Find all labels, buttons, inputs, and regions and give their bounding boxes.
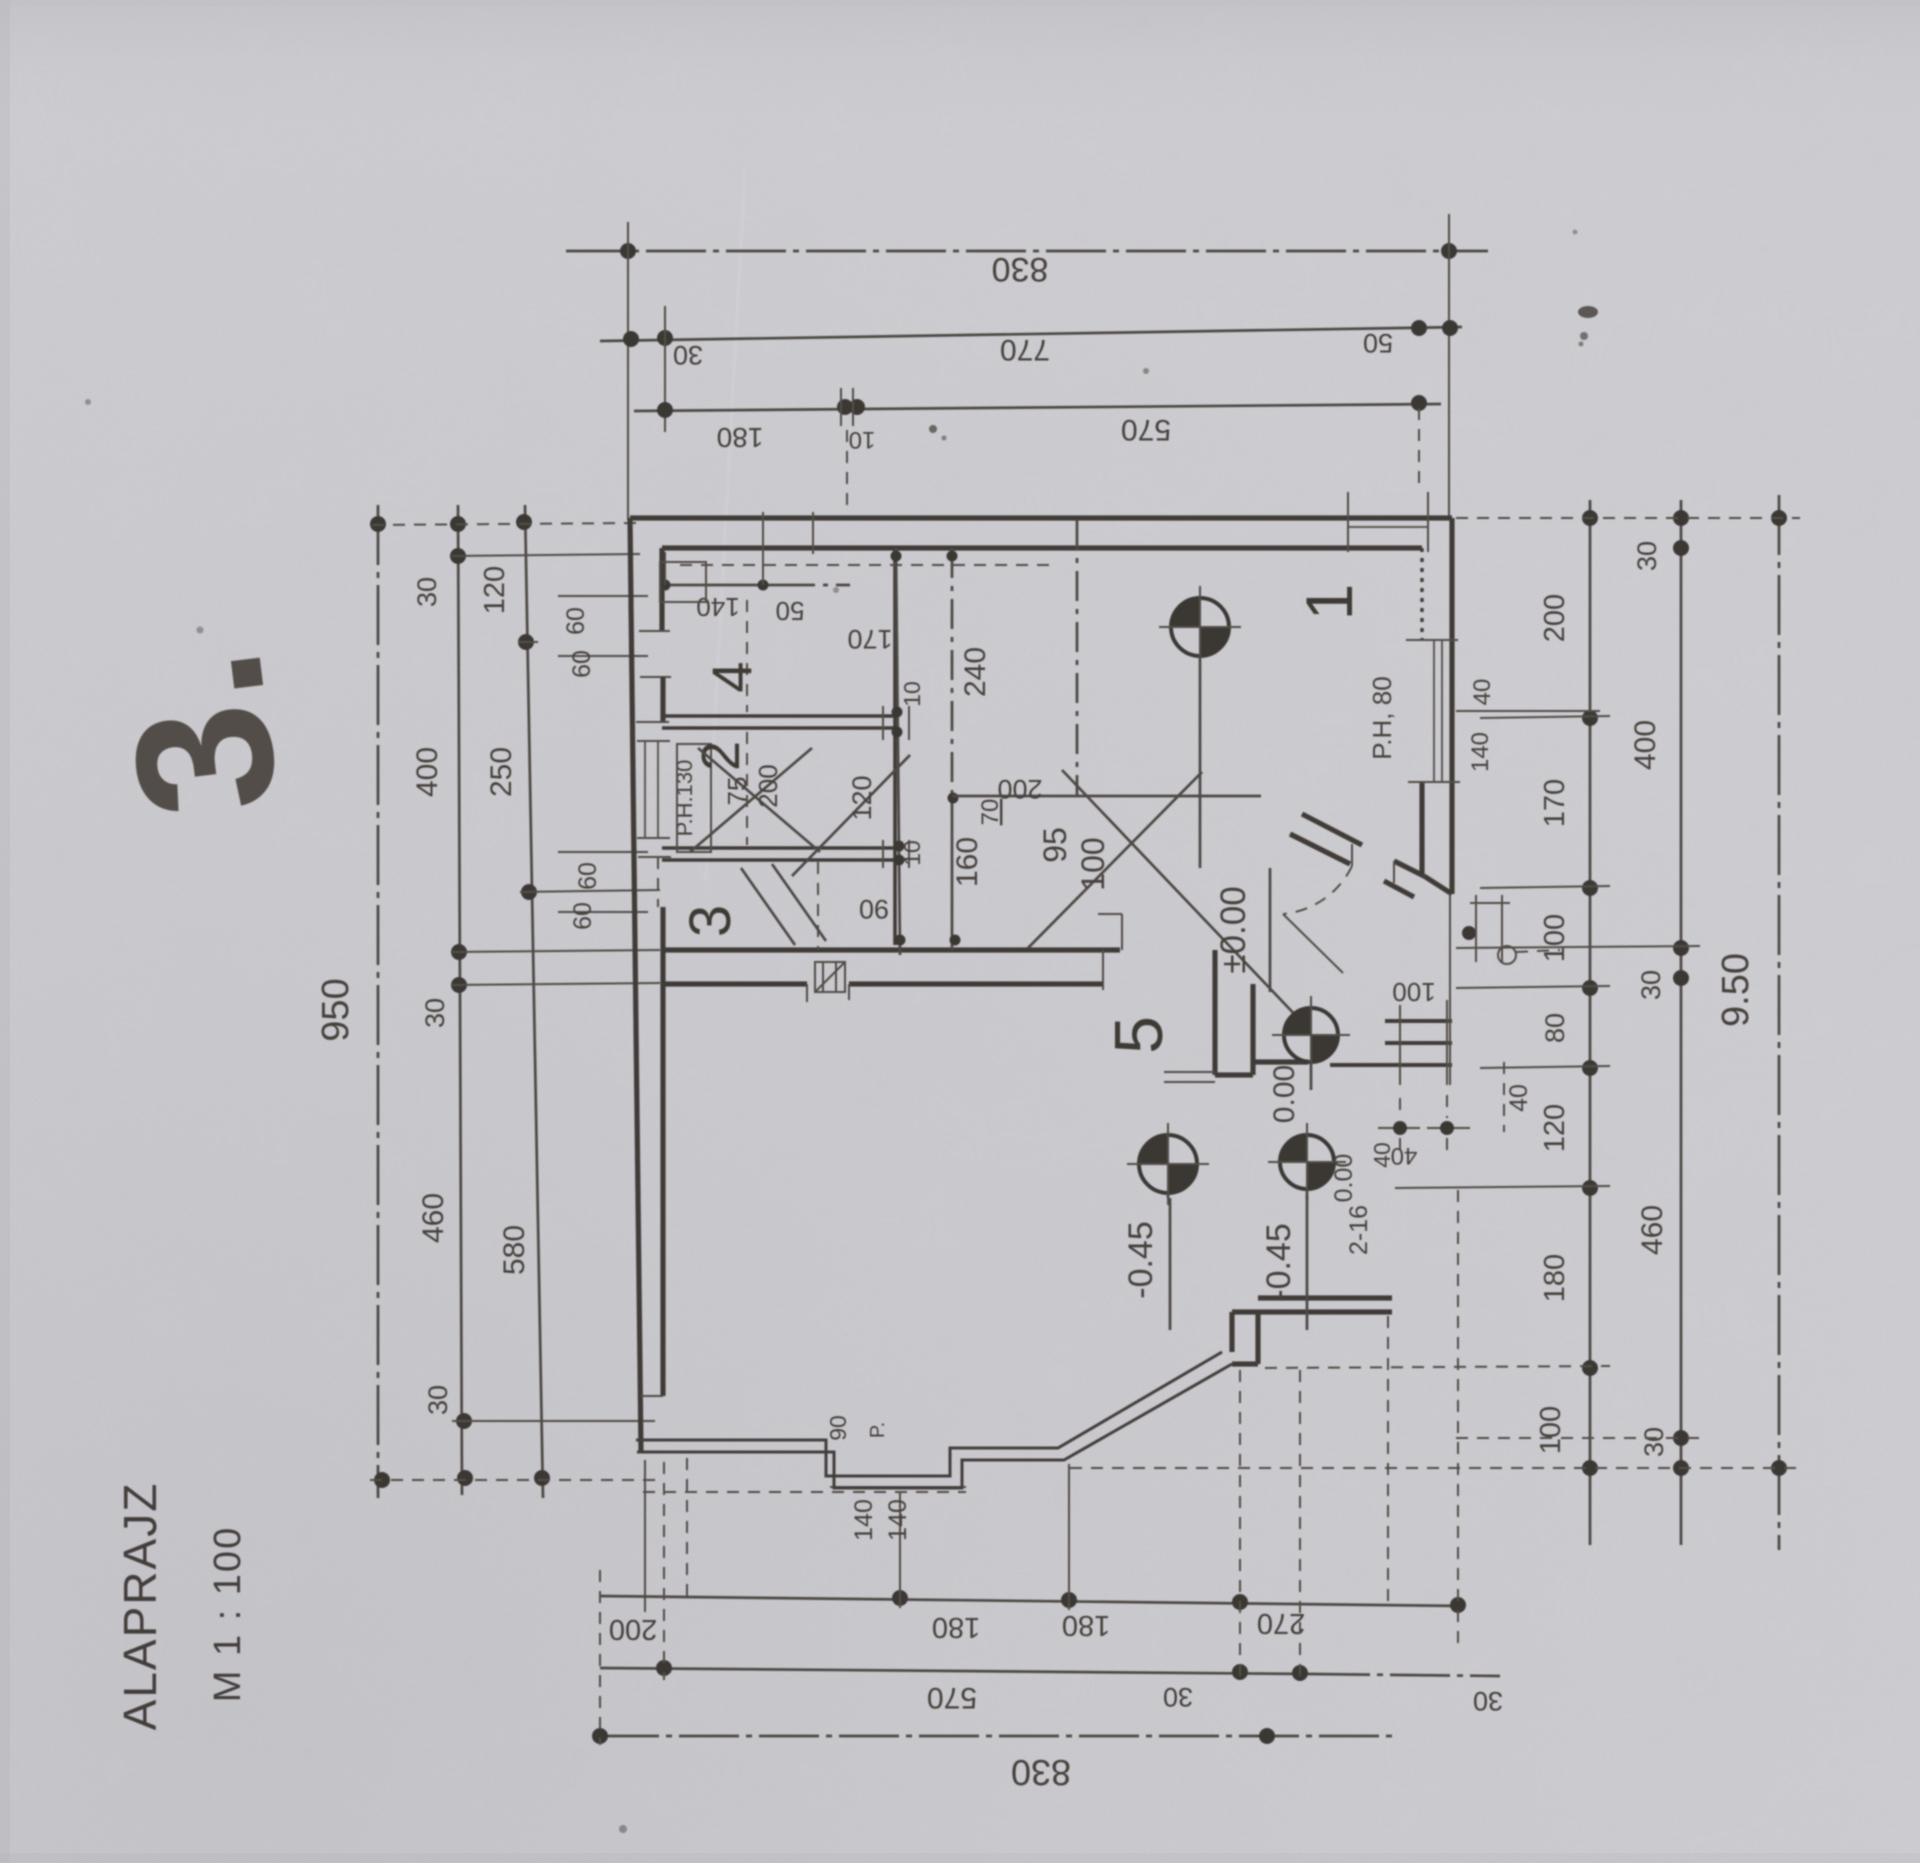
top dim chain total 830 xyxy=(566,250,1488,253)
opening in top wall x 763-813 xyxy=(762,512,764,554)
svg-text:60: 60 xyxy=(568,650,596,678)
svg-text:30: 30 xyxy=(1639,1427,1669,1457)
svg-text:4: 4 xyxy=(700,661,763,692)
svg-text:0.00: 0.00 xyxy=(1268,1065,1301,1123)
interior wall V2 stub xyxy=(1212,950,1217,1075)
svg-text:30: 30 xyxy=(423,1385,453,1415)
svg-text:180: 180 xyxy=(1062,1609,1110,1641)
svg-text:100: 100 xyxy=(1539,914,1571,962)
svg-text:M 1 : 100: M 1 : 100 xyxy=(207,1526,249,1702)
dim line 200 to center xyxy=(952,795,1261,798)
back door leaf open xyxy=(1283,914,1343,973)
svg-text:240: 240 xyxy=(959,647,992,697)
outer wall: right edge (double) xyxy=(1449,518,1454,894)
svg-text:120: 120 xyxy=(479,566,511,614)
dim 140/50 inside top-left room xyxy=(663,584,785,587)
svg-text:120: 120 xyxy=(847,775,877,820)
eaves dash line below terrace xyxy=(643,1491,966,1493)
svg-text:ALAPRAJZ: ALAPRAJZ xyxy=(114,1482,166,1731)
right dim chain total 9.50 xyxy=(1778,495,1781,1550)
corner dim details xyxy=(1449,894,1451,1085)
60 60 jamb dims upper xyxy=(558,595,648,597)
door jamb at 95 opening xyxy=(1102,950,1104,990)
45deg chamfer wall with back door opening xyxy=(1302,814,1362,845)
svg-text:50: 50 xyxy=(1363,328,1393,358)
svg-text:100: 100 xyxy=(1392,977,1435,1007)
svg-text:30: 30 xyxy=(1473,1686,1503,1716)
svg-text:5: 5 xyxy=(1101,1016,1177,1054)
small circle marker xyxy=(1498,946,1516,964)
window sill box room2 xyxy=(677,744,711,852)
svg-text:580: 580 xyxy=(498,1225,531,1275)
fixture room4 xyxy=(660,562,706,602)
svg-text:200: 200 xyxy=(753,764,783,807)
svg-text:770: 770 xyxy=(1000,333,1050,366)
svg-text:140: 140 xyxy=(850,1499,878,1541)
svg-text:30: 30 xyxy=(420,998,450,1028)
outer wall: top edge (double) xyxy=(630,515,1452,520)
left inner segments with openings xyxy=(659,548,664,631)
svg-text:160: 160 xyxy=(951,837,984,887)
partition room2/room3 xyxy=(662,846,895,850)
svg-text:570: 570 xyxy=(1121,413,1171,446)
svg-text:180: 180 xyxy=(932,1611,980,1643)
vertical crease left-center xyxy=(706,170,745,880)
svg-text:40: 40 xyxy=(1369,1142,1395,1168)
svg-text:9.50: 9.50 xyxy=(1715,953,1757,1027)
svg-text:570: 570 xyxy=(927,1681,977,1714)
svg-text:400: 400 xyxy=(411,747,444,797)
svg-text:200: 200 xyxy=(1539,594,1571,642)
benchmark symbol room1 xyxy=(1159,586,1241,868)
svg-text:1: 1 xyxy=(1292,584,1366,621)
svg-text:75: 75 xyxy=(722,777,752,806)
interior partition V1 (rooms 4/2 vs room 1) xyxy=(893,548,897,945)
right dim chain 30 400 30 460 30 xyxy=(1680,500,1683,1545)
svg-text:140: 140 xyxy=(1467,732,1494,772)
svg-text:P.H, 80: P.H, 80 xyxy=(1367,676,1397,759)
svg-text:±0.00: ±0.00 xyxy=(1214,886,1253,973)
svg-text:90: 90 xyxy=(825,1415,851,1441)
edge shading xyxy=(0,0,10,1863)
svg-text:830: 830 xyxy=(992,250,1049,288)
left dim chain 120+250+580 xyxy=(525,505,543,1498)
benchmark symbol terrace xyxy=(1127,1123,1209,1205)
interior dim chain 170 10 120 10 90 xyxy=(896,548,900,955)
svg-text:170: 170 xyxy=(847,624,892,654)
svg-text:50: 50 xyxy=(776,596,805,626)
left dim chain total 950 xyxy=(377,505,380,1498)
svg-text:100: 100 xyxy=(1535,1406,1567,1454)
svg-text:200: 200 xyxy=(609,1613,657,1645)
svg-text:400: 400 xyxy=(1629,720,1662,770)
bottom dim chain total 830 xyxy=(599,1735,1392,1738)
svg-text:830: 830 xyxy=(1011,1752,1071,1793)
svg-text:95: 95 xyxy=(1037,827,1073,863)
outer wall: left edge (double) xyxy=(630,518,641,1452)
door threshold symbol xyxy=(815,962,845,992)
svg-text:10: 10 xyxy=(899,681,925,707)
60 60 jamb dims lower xyxy=(558,851,648,853)
svg-text:140: 140 xyxy=(884,1499,912,1541)
top dim chain 180+10+570 xyxy=(634,404,1441,411)
bottom dim chain 200 180 180 270 xyxy=(600,1596,1465,1606)
svg-text:140: 140 xyxy=(696,592,739,622)
window P.H.130 in left wall xyxy=(636,721,669,723)
svg-text:180: 180 xyxy=(1539,1254,1571,1302)
svg-text:10: 10 xyxy=(849,426,876,453)
svg-text:460: 460 xyxy=(1636,1205,1669,1255)
svg-text:30: 30 xyxy=(1163,1682,1193,1712)
svg-text:100: 100 xyxy=(1075,837,1111,890)
terrace edge bottom-left (thin double) xyxy=(636,1352,1222,1476)
svg-text:200: 200 xyxy=(997,774,1042,804)
specks xyxy=(929,425,937,433)
svg-text:460: 460 xyxy=(417,1193,450,1243)
interior wall H1 (double) xyxy=(662,947,1120,952)
dashed line under top wall (wardrobe) xyxy=(680,564,1055,566)
svg-text:40: 40 xyxy=(1469,679,1496,706)
soft curl shade top-right xyxy=(0,0,1,1)
svg-text:3: 3 xyxy=(678,905,743,937)
svg-text:30: 30 xyxy=(412,577,442,607)
svg-text:0.00: 0.00 xyxy=(1330,1154,1358,1203)
window in top wall right part xyxy=(1347,492,1349,552)
svg-text:950: 950 xyxy=(315,978,357,1041)
top dim chain 30+770+30 xyxy=(600,327,1462,341)
bottom dim chain 570 30 xyxy=(600,1668,1310,1674)
svg-text:30: 30 xyxy=(1636,970,1666,1000)
window P.H.80 in right wall xyxy=(1406,639,1458,641)
svg-text:40: 40 xyxy=(1505,1084,1533,1112)
ink layer xyxy=(83,214,1800,1833)
svg-text:30: 30 xyxy=(673,340,703,370)
right dim chain 200 170 100 80 120 180 100 xyxy=(1589,500,1592,1545)
svg-text:P.: P. xyxy=(867,1422,889,1438)
svg-text:180: 180 xyxy=(717,422,764,453)
threshold lines near back door xyxy=(1164,1071,1215,1073)
svg-text:-0.45: -0.45 xyxy=(1122,1221,1160,1299)
svg-text:60: 60 xyxy=(562,607,590,635)
svg-text:3.: 3. xyxy=(83,639,319,827)
left dim chain 30+400+30+460+30 xyxy=(458,505,462,1495)
leader 120 door xyxy=(792,755,910,876)
svg-text:60: 60 xyxy=(569,902,597,930)
leader X 95/100 xyxy=(1028,772,1202,948)
svg-text:-0.45: -0.45 xyxy=(1260,1223,1298,1301)
svg-text:10: 10 xyxy=(899,840,925,866)
svg-text:170: 170 xyxy=(1539,779,1571,827)
svg-text:30: 30 xyxy=(1632,541,1662,571)
svg-text:90: 90 xyxy=(859,894,889,924)
svg-text:250: 250 xyxy=(485,747,518,797)
partition room4/room2 xyxy=(662,714,895,718)
interior dim chain 240 160 xyxy=(951,548,954,798)
benchmark symbol garden xyxy=(1268,1123,1346,1201)
svg-text:2-16: 2-16 xyxy=(1345,1205,1373,1255)
porch steps bottom-right xyxy=(1385,1019,1452,1023)
svg-text:270: 270 xyxy=(1257,1607,1305,1639)
svg-text:120: 120 xyxy=(1539,1104,1571,1152)
svg-text:80: 80 xyxy=(1540,1013,1570,1043)
door opening in left wall xyxy=(657,857,659,907)
svg-text:60: 60 xyxy=(574,862,602,890)
benchmark symbol back door xyxy=(1272,996,1350,1090)
porch walls bottom-right of room5 xyxy=(1232,1361,1258,1366)
